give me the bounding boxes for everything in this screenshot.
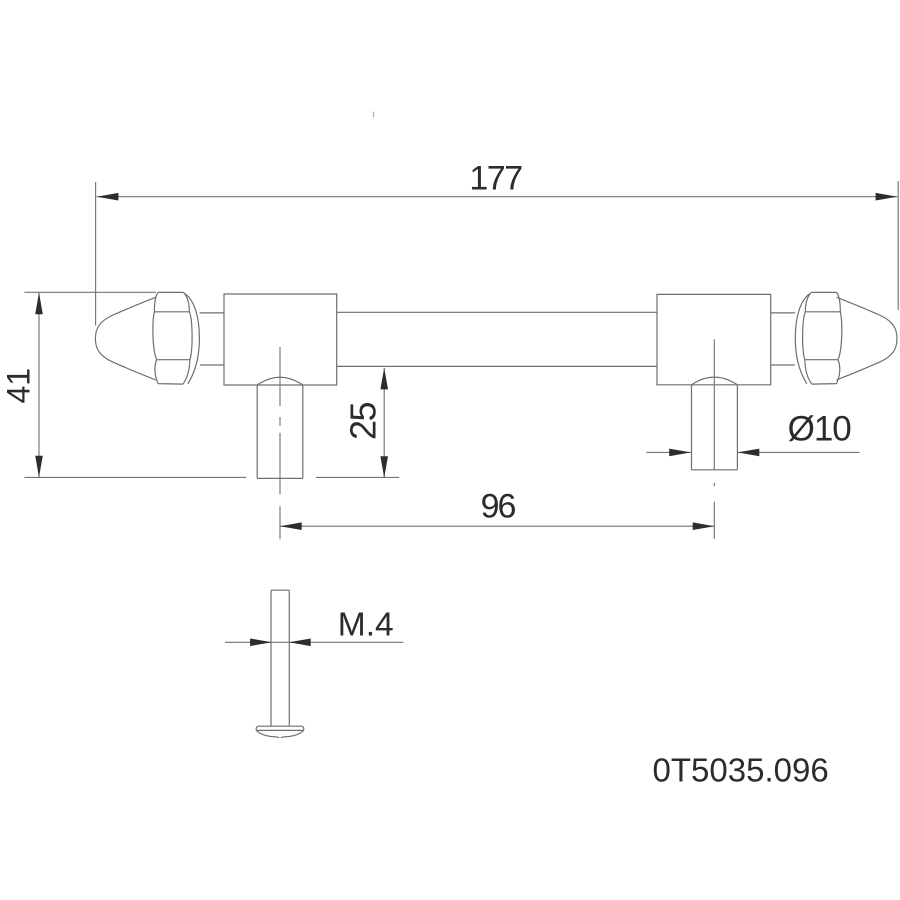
- arrowhead diameter10 left: [669, 449, 691, 457]
- left post block: [224, 294, 337, 385]
- svg-text:177: 177: [469, 160, 522, 198]
- left end cap dome: [95, 297, 156, 380]
- dimension 177 extension line left: [95, 182, 97, 326]
- screw shaft: [271, 590, 289, 726]
- left post: [257, 385, 303, 478]
- arrowhead 25 bottom: [380, 456, 388, 478]
- dimension 177 line: [97, 196, 898, 198]
- svg-text:Ø10: Ø10: [788, 410, 852, 449]
- dimension 96 line: [280, 525, 714, 527]
- left post centerline: [279, 347, 281, 539]
- arrowhead M4 left: [250, 639, 272, 647]
- arrowhead 25 top: [380, 368, 388, 390]
- right post: [692, 385, 738, 470]
- dimension 41 line: [38, 293, 40, 478]
- arrowhead 41 top: [35, 293, 43, 315]
- svg-text:M.4: M.4: [338, 606, 394, 643]
- dimension 41 extension line bottom: [24, 476, 399, 478]
- left neck: [200, 313, 224, 365]
- handle bar: [337, 312, 657, 366]
- arrowhead 177 left: [97, 193, 119, 201]
- arrowhead 96 left: [280, 522, 302, 530]
- dimension M4 line: [225, 641, 403, 643]
- right post fillet arc: [692, 377, 738, 385]
- arrowhead 177 right: [876, 193, 898, 201]
- svg-text:96: 96: [481, 487, 516, 525]
- dimension diameter 10 line: [646, 451, 859, 453]
- svg-text:0T5035.096: 0T5035.096: [653, 751, 829, 788]
- svg-text:25: 25: [343, 403, 384, 441]
- svg-text:41: 41: [1, 368, 37, 404]
- right end cap nut: [795, 292, 841, 384]
- arrowhead 41 bottom: [35, 456, 43, 478]
- dimension 25 line: [383, 368, 385, 478]
- left post fillet arc: [257, 377, 303, 385]
- right post centerline: [713, 339, 715, 539]
- arrowhead 96 right: [693, 522, 715, 530]
- dimension 41 extension line top: [24, 291, 156, 293]
- right post block: [657, 294, 771, 384]
- arrowhead M4 right: [289, 639, 311, 647]
- arrowhead diameter10 right: [738, 449, 760, 457]
- screw head: [256, 726, 304, 738]
- right end cap dome: [836, 297, 897, 380]
- left end cap nut: [153, 292, 199, 384]
- stray tick mark top: [373, 112, 375, 118]
- right neck: [771, 313, 795, 365]
- dimension 177 extension line right: [897, 181, 899, 310]
